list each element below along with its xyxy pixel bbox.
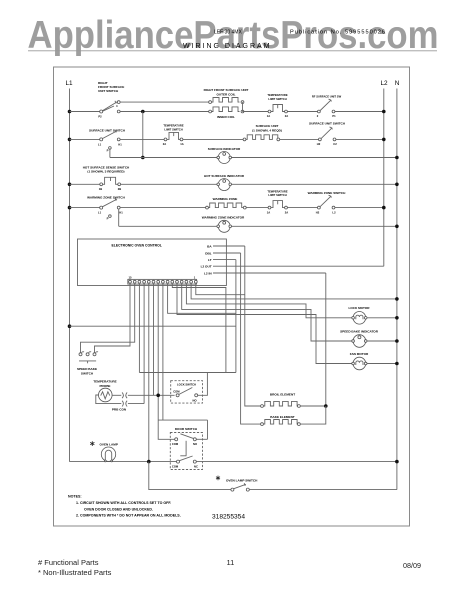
wire bottom bus left bbox=[70, 461, 177, 463]
svg-text:LIMIT SWITCH: LIMIT SWITCH bbox=[164, 127, 182, 131]
svg-text:OVEN LAMP SWITCH: OVEN LAMP SWITCH bbox=[226, 478, 258, 482]
footer page number bbox=[227, 558, 235, 567]
svg-text:2A: 2A bbox=[285, 114, 288, 118]
svg-text:1B: 1B bbox=[99, 187, 102, 191]
wire pin to speed bake switch left bbox=[81, 284, 135, 353]
svg-text:P: P bbox=[107, 217, 109, 221]
switch oven lamp switch label bbox=[216, 476, 220, 481]
switch rf surface unit sw bbox=[318, 110, 321, 113]
svg-text:ELECTRONIC OVEN CONTROL: ELECTRONIC OVEN CONTROL bbox=[112, 243, 162, 247]
svg-text:L2: L2 bbox=[380, 80, 388, 87]
switch door switch lower pole bbox=[177, 460, 180, 463]
svg-text:RF SURFACE UNIT SW: RF SURFACE UNIT SW bbox=[312, 94, 342, 98]
switch temperature limit switch row1 bbox=[268, 110, 271, 113]
wire pin to speed bake indicator row bbox=[182, 284, 353, 341]
wire warming zone indicator row bbox=[119, 225, 397, 227]
wire LT vertical bbox=[235, 260, 237, 373]
indicator surface indicator bbox=[218, 152, 230, 164]
svg-text:1A: 1A bbox=[267, 114, 270, 118]
wire door switch link bbox=[185, 441, 187, 456]
svg-text:UNIT SWITCH: UNIT SWITCH bbox=[98, 89, 119, 93]
node L2 junction row4 bbox=[382, 206, 386, 210]
element inner coil bbox=[209, 110, 212, 113]
motor lock motor bbox=[353, 312, 366, 325]
connector PRB CON lower bbox=[122, 401, 123, 407]
wire H1 down to warming indicator row bbox=[118, 209, 120, 226]
wire BA vertical to broil bbox=[245, 246, 261, 406]
wire pin to door switch feed bbox=[162, 284, 164, 420]
wire pin staircase to mid vertical bbox=[172, 284, 226, 372]
node L2 junction row2 bbox=[382, 138, 386, 142]
svg-text:P1: P1 bbox=[332, 114, 336, 118]
svg-text:DOOR SWITCH: DOOR SWITCH bbox=[175, 427, 198, 431]
wire to L2 bbox=[336, 138, 384, 140]
svg-text:2A: 2A bbox=[285, 210, 288, 214]
wire lock NO feeder bbox=[198, 373, 208, 396]
svg-text:L1: L1 bbox=[98, 142, 102, 146]
wire probe left wrap to lower connector bbox=[96, 395, 122, 404]
wire N vertical bus bbox=[396, 89, 398, 490]
wire pin to lock switch com bbox=[158, 284, 174, 439]
svg-text:TEMPERATURE: TEMPERATURE bbox=[163, 124, 183, 128]
svg-text:(1 SHOWN, 3 REQUIRED): (1 SHOWN, 3 REQUIRED) bbox=[87, 170, 124, 174]
node broil junction bbox=[324, 404, 328, 408]
node L2 junction row1 bbox=[382, 110, 386, 114]
svg-text:BAKE ELEMENT: BAKE ELEMENT bbox=[270, 415, 295, 419]
wire row2 to element bbox=[120, 138, 164, 140]
svg-text:318255354: 318255354 bbox=[212, 513, 245, 520]
node N junction row3 bbox=[395, 183, 399, 187]
svg-text:L2 IN: L2 IN bbox=[204, 272, 212, 276]
wire pin to lock motor row bbox=[186, 284, 353, 318]
wire probe right to upper connector bbox=[112, 394, 121, 396]
svg-text:P2: P2 bbox=[98, 115, 102, 119]
node N junction speed bake indicator bbox=[395, 339, 399, 343]
node L1 junction row2 bbox=[68, 138, 72, 142]
switch warming zone switch right bbox=[318, 206, 321, 209]
wire door switch top feed bbox=[158, 419, 207, 421]
switch door switch box bbox=[170, 433, 202, 470]
node L1 junction row4 bbox=[68, 206, 72, 210]
wire LT stub bbox=[213, 259, 236, 261]
svg-text:LIMIT SWITCH: LIMIT SWITCH bbox=[268, 193, 286, 197]
lamp oven lamp label bbox=[90, 441, 94, 446]
wire to right warming switch bbox=[288, 207, 318, 209]
switch speed bake switch bbox=[79, 353, 82, 356]
svg-text:PRB CON: PRB CON bbox=[112, 407, 127, 411]
svg-text:NOTES:: NOTES: bbox=[68, 495, 82, 499]
lamp oven lamp bbox=[101, 447, 115, 461]
svg-text:L1: L1 bbox=[98, 211, 102, 215]
node L1 junction row3 bbox=[68, 183, 72, 187]
wire row3 to indicator and N bbox=[121, 183, 397, 185]
svg-text:L1: L1 bbox=[65, 80, 73, 87]
wire lamp switch to N bbox=[249, 489, 397, 491]
node N junction surface indicator row bbox=[395, 156, 399, 160]
resistor temperature probe bbox=[99, 388, 113, 402]
svg-text:NO: NO bbox=[193, 398, 197, 402]
node N junction warming indicator row bbox=[395, 225, 399, 229]
svg-text:WARMING ZONE SWITCH: WARMING ZONE SWITCH bbox=[87, 196, 126, 200]
wire fan motor to N bbox=[367, 363, 397, 365]
svg-text:INNER COIL: INNER COIL bbox=[217, 115, 235, 119]
svg-text:SURFACE UNIT SWITCH: SURFACE UNIT SWITCH bbox=[309, 122, 346, 126]
svg-text:LIMIT SWITCH: LIMIT SWITCH bbox=[268, 97, 286, 101]
wire row2 L1 to switch bbox=[70, 138, 100, 140]
wire broil to L2 feed bbox=[300, 405, 326, 407]
wire bottom bus right bbox=[196, 461, 397, 463]
wire row3 left bbox=[70, 183, 100, 185]
svg-text:(1 SHOWN, 4 REQD): (1 SHOWN, 4 REQD) bbox=[252, 129, 282, 133]
connector P1 strip bbox=[128, 279, 197, 284]
switch door switch upper pole bbox=[175, 438, 178, 441]
svg-text:SPEED BAKE INDICATOR: SPEED BAKE INDICATOR bbox=[340, 329, 379, 333]
svg-text:SURFACE UNIT: SURFACE UNIT bbox=[256, 124, 279, 128]
node lock com junction bbox=[156, 394, 160, 398]
svg-text:NO: NO bbox=[193, 442, 197, 446]
wire pin staircase to BA vertical bbox=[196, 284, 245, 295]
svg-text:LOCK SWITCH: LOCK SWITCH bbox=[177, 382, 196, 386]
wire row1 L1 to switch bbox=[70, 111, 100, 113]
motor fan motor bbox=[353, 357, 366, 370]
switch temperature limit switch row4 bbox=[268, 206, 271, 209]
svg-text:WIRING DIAGRAM: WIRING DIAGRAM bbox=[183, 43, 270, 50]
wire L2 IN vertical to elements bbox=[325, 273, 327, 406]
wire L1 vertical bus bbox=[69, 89, 71, 462]
wire mid horizontal y372.5 bbox=[139, 372, 236, 374]
svg-text:LEF 30 4MX: LEF 30 4MX bbox=[214, 30, 242, 36]
svg-text:C2: C2 bbox=[333, 142, 337, 146]
node N junction bottom bus bbox=[395, 460, 399, 464]
svg-text:SPEED BAKE: SPEED BAKE bbox=[77, 367, 97, 371]
svg-text:RIGHT FRONT SURFACE UNIT: RIGHT FRONT SURFACE UNIT bbox=[204, 88, 249, 92]
svg-text:OUTER COIL: OUTER COIL bbox=[216, 93, 235, 97]
svg-text:NC: NC bbox=[194, 465, 198, 469]
wire BA stub bbox=[213, 245, 245, 247]
svg-text:WARMING ZONE INDICATOR: WARMING ZONE INDICATOR bbox=[202, 216, 245, 220]
header rule bbox=[28, 50, 437, 52]
footer functional parts bbox=[38, 558, 111, 578]
element outer coil bbox=[209, 101, 212, 104]
svg-text:WARMING ZONE SWITCH: WARMING ZONE SWITCH bbox=[308, 191, 347, 195]
footer date bbox=[403, 561, 421, 570]
svg-text:P: P bbox=[107, 148, 109, 152]
node L1 junction row1 bbox=[68, 110, 72, 114]
svg-text:OVEN LAMP: OVEN LAMP bbox=[100, 443, 118, 447]
wire to inner coil bbox=[120, 111, 209, 113]
wire to right switch bbox=[280, 138, 319, 140]
switch temperature limit switch row2 bbox=[164, 138, 167, 141]
switch lock switch box bbox=[171, 381, 203, 403]
switch hot surface sense switch bbox=[100, 183, 103, 186]
svg-text:DBL: DBL bbox=[205, 251, 211, 255]
svg-text:PROBE: PROBE bbox=[99, 384, 110, 388]
op-amp U1 electronic oven control box bbox=[78, 239, 227, 286]
svg-text:LOCK MOTOR: LOCK MOTOR bbox=[348, 306, 370, 310]
svg-text:SURFACE INDICATOR: SURFACE INDICATOR bbox=[208, 147, 241, 151]
svg-text:L2 OUT: L2 OUT bbox=[201, 265, 212, 269]
wire coil join bbox=[242, 102, 244, 111]
indicator speed bake indicator bbox=[353, 335, 366, 348]
node N junction fan motor bbox=[395, 362, 399, 366]
svg-text:N: N bbox=[395, 80, 400, 87]
switch surface unit switch left bbox=[100, 138, 103, 141]
connector pins bbox=[129, 280, 132, 283]
wire bake to broil junction bbox=[300, 406, 326, 424]
wire pin to speed bake switch right bbox=[95, 284, 131, 353]
node lamp feeder junction bbox=[147, 460, 151, 464]
svg-text:OVEN DOOR CLOSED AND UNLOCKED.: OVEN DOOR CLOSED AND UNLOCKED. bbox=[84, 507, 153, 511]
wire lock motor to N bbox=[367, 317, 397, 319]
wire to temp limit switch bbox=[246, 207, 268, 209]
svg-text:2: 2 bbox=[317, 114, 319, 118]
svg-text:WARMING ZONE: WARMING ZONE bbox=[213, 197, 238, 201]
wire pin long to lamp feeder bbox=[148, 284, 150, 462]
wire pin to N row bbox=[191, 284, 397, 299]
element broil element bbox=[261, 405, 264, 408]
wire L2 OUT stub to L2 bbox=[213, 265, 384, 267]
svg-text:2. COMPONENTS WITH * DO NOT: 2. COMPONENTS WITH * DO NOT APPEAR ON AL… bbox=[76, 514, 181, 518]
svg-text:H2: H2 bbox=[316, 210, 320, 214]
switch right front surface unit switch P2 bbox=[100, 110, 103, 113]
svg-text:LT: LT bbox=[208, 258, 212, 262]
svg-text:FAN MOTOR: FAN MOTOR bbox=[350, 352, 369, 356]
indicator hot surface indicator bbox=[218, 179, 230, 191]
node N junction lock motor bbox=[395, 316, 399, 320]
svg-text:L2: L2 bbox=[332, 210, 336, 214]
svg-text:1A: 1A bbox=[180, 142, 183, 146]
element surface unit bbox=[243, 138, 246, 141]
wire row4 left bbox=[70, 207, 100, 209]
wire pin to probe lower path bbox=[143, 284, 145, 404]
svg-text:COM: COM bbox=[172, 442, 179, 446]
svg-text:TEMPERATURE: TEMPERATURE bbox=[267, 189, 287, 193]
wire pin staircase to LT bus bbox=[168, 284, 236, 313]
svg-text:SURFACE UNIT SWITCH: SURFACE UNIT SWITCH bbox=[89, 129, 126, 133]
svg-text:SWITCH: SWITCH bbox=[81, 371, 94, 375]
element bake element bbox=[261, 423, 264, 426]
wire pin to probe right path bbox=[153, 284, 155, 395]
wire lamp switch feeder bbox=[149, 462, 231, 490]
connector PRB CON upper bbox=[122, 392, 123, 398]
svg-text:H1: H1 bbox=[118, 142, 122, 146]
node N junction y299 bbox=[395, 297, 399, 301]
svg-text:15: 15 bbox=[129, 275, 132, 279]
svg-text:BROIL ELEMENT: BROIL ELEMENT bbox=[270, 393, 295, 397]
wire pin to mid bus bbox=[138, 284, 140, 372]
diagram frame bbox=[54, 67, 410, 526]
switch surface unit switch right bbox=[319, 138, 322, 141]
svg-text:2A: 2A bbox=[163, 142, 166, 146]
svg-text:4: 4 bbox=[116, 104, 118, 108]
wire row4 to element bbox=[120, 207, 206, 209]
wire feeder row1 to indicator row bbox=[141, 110, 145, 114]
wire P down to indicator row bbox=[109, 149, 111, 157]
wire to rf switch bbox=[288, 111, 318, 113]
svg-text:COM: COM bbox=[172, 465, 179, 469]
wire DBL stub bbox=[213, 252, 241, 254]
wire to L2 bbox=[335, 111, 384, 113]
wire L2 IN stub bbox=[213, 272, 326, 274]
wire pin to fan motor row bbox=[177, 284, 353, 363]
svg-text:HOT SURFACE INDICATOR: HOT SURFACE INDICATOR bbox=[204, 174, 245, 178]
svg-text:Publication No. 5995550026: Publication No. 5995550026 bbox=[290, 30, 385, 36]
wire to L2 bbox=[335, 207, 384, 209]
svg-text:H1: H1 bbox=[119, 211, 123, 215]
wire DBL vertical to bake bbox=[241, 253, 261, 424]
svg-text:1. CIRCUIT SHOWN WITH ALL CO: 1. CIRCUIT SHOWN WITH ALL CONTROLS SET T… bbox=[76, 501, 171, 505]
svg-text:H2: H2 bbox=[317, 142, 321, 146]
indicator warming zone indicator bbox=[218, 220, 230, 232]
svg-text:1A: 1A bbox=[267, 210, 270, 214]
svg-text:COM: COM bbox=[173, 390, 180, 394]
wire speed bake indicator to N bbox=[367, 340, 397, 342]
switch warming zone switch left bbox=[100, 206, 103, 209]
wire L1 mid bus bbox=[68, 324, 72, 328]
wire surface indicator row bbox=[110, 157, 397, 159]
wire L2 vertical bus bbox=[383, 89, 385, 267]
svg-text:2B: 2B bbox=[118, 187, 121, 191]
wire to outer coil bbox=[120, 101, 209, 103]
svg-text:1: 1 bbox=[194, 275, 196, 279]
svg-text:TEMPERATURE: TEMPERATURE bbox=[267, 93, 287, 97]
switch oven lamp switch bbox=[231, 488, 234, 491]
element warming zone bbox=[206, 206, 209, 209]
svg-text:BA: BA bbox=[207, 244, 212, 248]
